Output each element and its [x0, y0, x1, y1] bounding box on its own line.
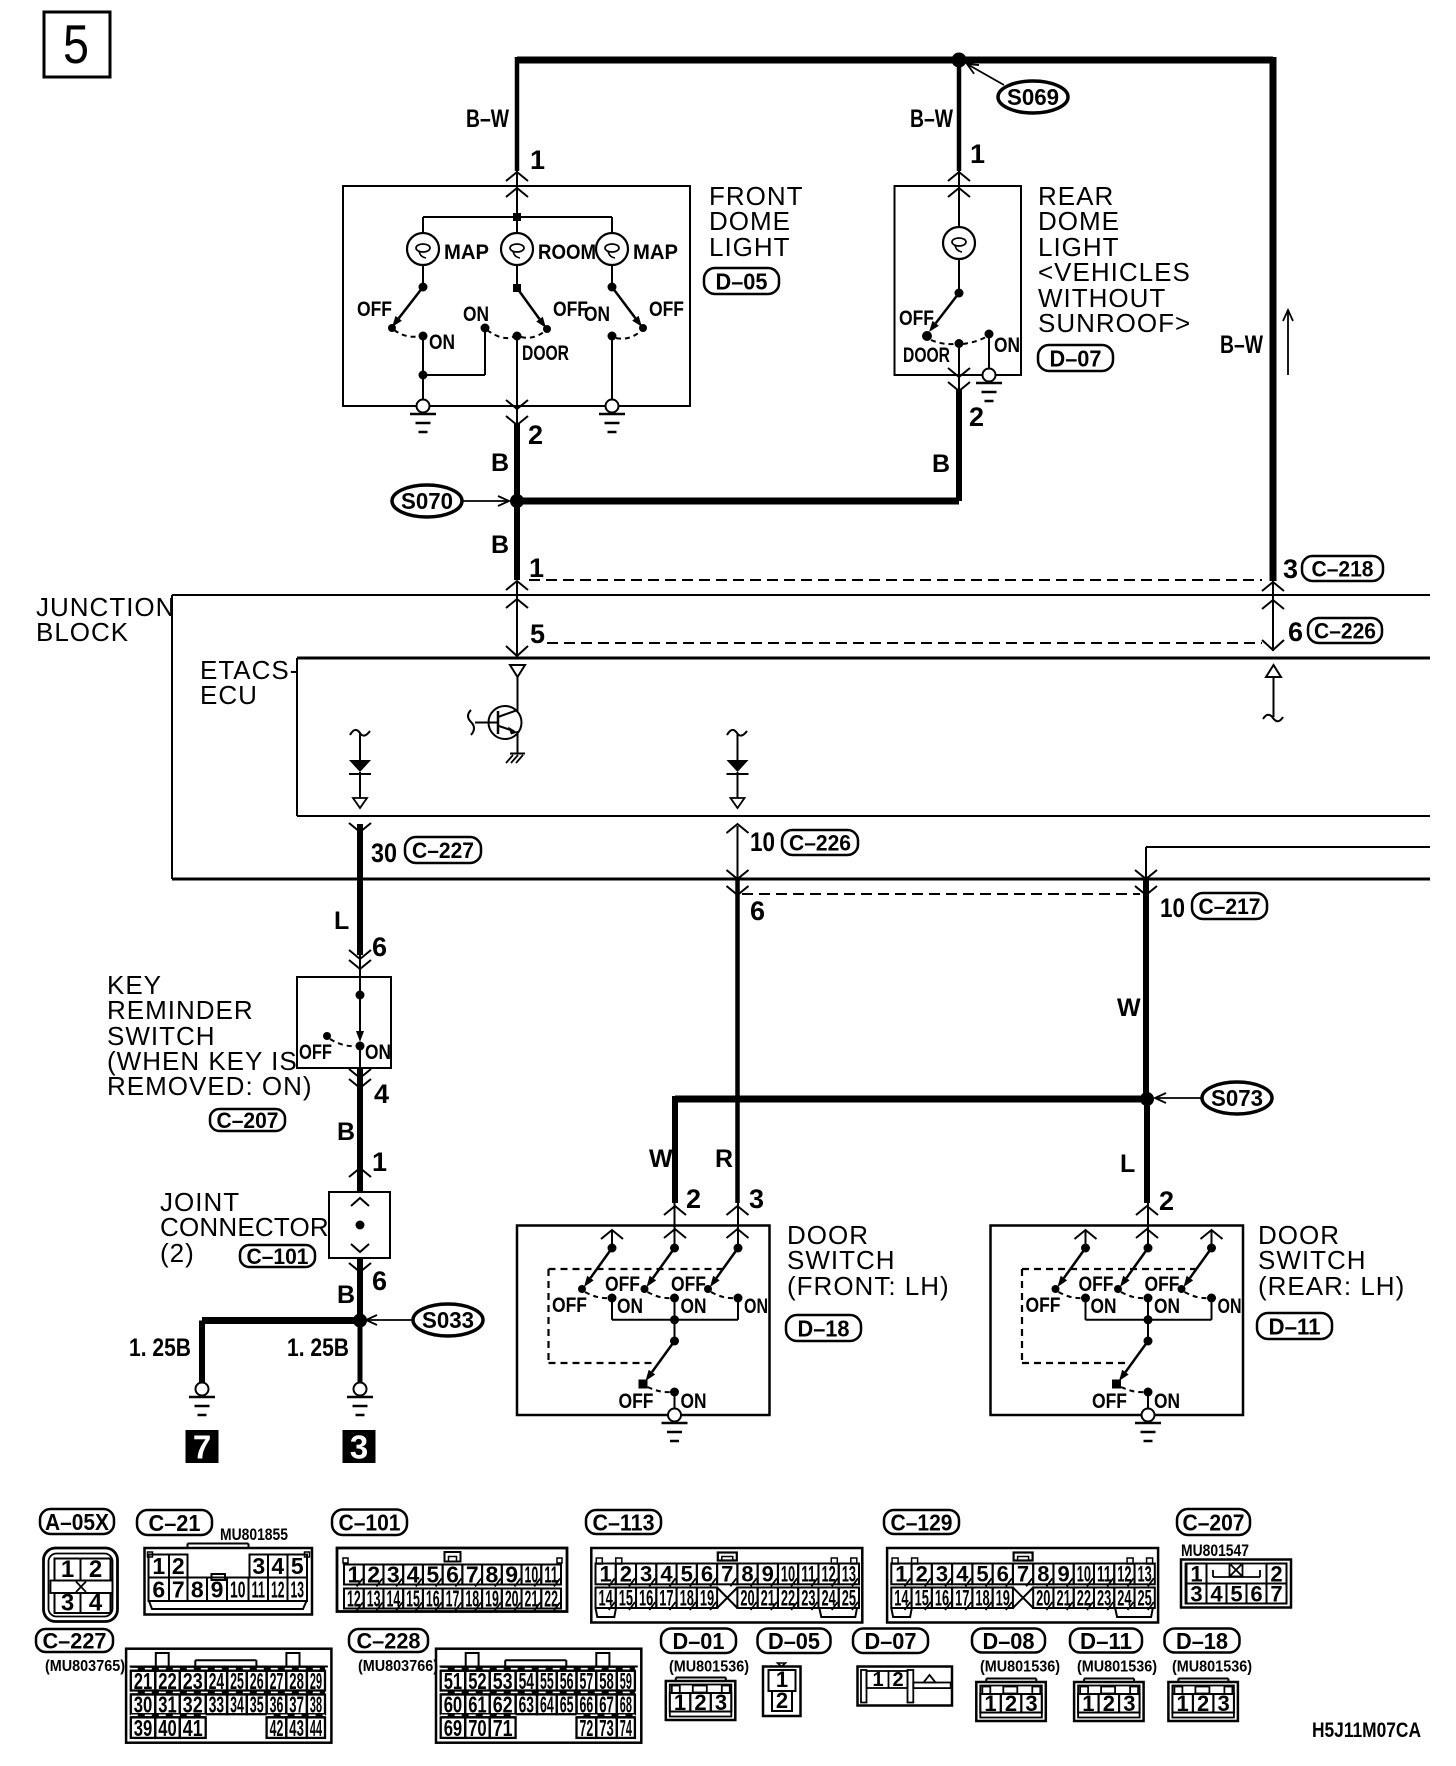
svg-text:4: 4: [271, 1553, 284, 1579]
wire: joint connector to S033: [357, 1258, 363, 1320]
pin 10 label C-226: [750, 827, 775, 857]
text KEY REMINDER SWITCH (WHEN KEY IS REMOVED: ON): [107, 970, 313, 1101]
svg-text:C–227: C–227: [43, 1628, 107, 1653]
svg-text:B: B: [491, 449, 509, 477]
front door switch: ground (door switch): [662, 1409, 688, 1442]
svg-text:H5J11M07CA: H5J11M07CA: [1312, 1719, 1421, 1742]
connector drawing C-129: [887, 1548, 1158, 1623]
key reminder switch top dot: [356, 991, 365, 1000]
svg-text:71: 71: [493, 1715, 513, 1741]
front door switch: lower terminal square OFF: [639, 1380, 648, 1389]
svg-text:52: 52: [468, 1668, 487, 1694]
rear door switch: label ON col C: [1218, 1295, 1242, 1318]
svg-text:REMOVED: ON): REMOVED: ON): [107, 1071, 313, 1101]
svg-text:D–11: D–11: [1269, 1313, 1321, 1339]
svg-text:OFF: OFF: [1092, 1390, 1127, 1413]
svg-text:10: 10: [230, 1576, 246, 1602]
svg-text:2: 2: [1159, 1186, 1174, 1216]
connector chevron joint connector entry: [349, 1168, 371, 1177]
rear door switch: dashed linkage box: [1022, 1269, 1198, 1363]
dashed throw arc (right MAP): [616, 331, 641, 339]
label D-05: [704, 268, 779, 294]
svg-text:B–W: B–W: [466, 105, 509, 133]
connector chevrons jb C-217 pin10 exit: [1135, 870, 1157, 895]
svg-text:SUNROOF>: SUNROOF>: [1038, 308, 1191, 338]
pin 6 label C-226: [1288, 617, 1303, 647]
label OFF (right MAP): [649, 298, 684, 321]
svg-text:30: 30: [371, 838, 397, 868]
svg-text:S070: S070: [401, 488, 453, 514]
front door switch: wire col B into box: [674, 1202, 676, 1248]
rear door switch: switch blade at x=1211.5: [1184, 1248, 1212, 1287]
pin 5 label (ETACS): [530, 619, 545, 649]
front door switch: switch pivot at x=612: [608, 1244, 617, 1253]
part number (MU801536) D-11: [1077, 1659, 1157, 1676]
part number MU801547: [1181, 1541, 1249, 1560]
svg-text:1: 1: [61, 1556, 74, 1583]
svg-text:ON: ON: [429, 331, 455, 354]
terminal dot OFF (rear dome): [922, 331, 932, 341]
svg-text:11: 11: [252, 1576, 266, 1602]
svg-text:1: 1: [674, 1690, 686, 1715]
svg-text:B: B: [932, 450, 950, 478]
connector label A-05X: [40, 1509, 114, 1535]
transistor Q1 (interior lamp driver): [468, 706, 522, 739]
svg-text:B–W: B–W: [910, 105, 953, 133]
svg-text:(MU801536): (MU801536): [980, 1659, 1060, 1676]
label B (front pin2): [491, 449, 509, 477]
wire: W wire inside notch: [1145, 847, 1147, 879]
label DOOR (ROOM): [522, 342, 569, 365]
label ON (left MAP): [429, 331, 455, 354]
dashed net pin6 to C-217: [742, 893, 1140, 895]
svg-text:(MU803765): (MU803765): [45, 1658, 125, 1675]
switch blade (rear dome, to OFF): [929, 293, 959, 332]
label OFF (ROOM): [553, 298, 588, 321]
connector chevrons jb pin1 entry: [506, 581, 528, 608]
wire: left ground drop: [199, 1321, 205, 1383]
wire: B-W feed to rear dome light pin 1: [957, 57, 962, 171]
svg-text:B: B: [337, 1118, 355, 1146]
svg-text:8: 8: [191, 1576, 204, 1602]
label B-W (rear feed): [910, 105, 953, 133]
wire: B-W branch down right side: [1270, 57, 1277, 581]
svg-text:72: 72: [580, 1715, 594, 1741]
svg-text:7: 7: [721, 1562, 733, 1587]
svg-text:29: 29: [310, 1668, 322, 1694]
svg-text:8: 8: [741, 1562, 753, 1587]
connector double chevron C-207 pin6: [349, 950, 371, 969]
svg-text:OFF: OFF: [357, 298, 392, 321]
svg-text:C–226: C–226: [789, 830, 851, 855]
part number (MU801536) D-01: [669, 1659, 749, 1676]
svg-text:C–227: C–227: [412, 838, 474, 863]
rear door switch: lower switch pivot: [1144, 1337, 1153, 1346]
svg-text:1: 1: [600, 1562, 612, 1587]
pin 3 label (front door): [749, 1184, 764, 1214]
svg-text:ON: ON: [1218, 1295, 1242, 1318]
rear door switch: terminal dot OFF at x=1181.5: [1178, 1285, 1186, 1293]
connector chevrons right B-W at jb: [1262, 582, 1284, 609]
wire: right MAP bulb stem: [611, 217, 613, 234]
pin 4 label: [374, 1079, 389, 1109]
svg-text:ON: ON: [744, 1295, 768, 1318]
connector label C-207: [1177, 1509, 1250, 1535]
svg-text:58: 58: [599, 1668, 614, 1694]
rear door switch: terminal dot ON lower: [1144, 1388, 1153, 1397]
ETACS input triangle (from pin5): [510, 665, 525, 677]
lamp: MAP bulb (right): [596, 233, 628, 265]
svg-text:5: 5: [63, 13, 89, 75]
svg-text:51: 51: [444, 1668, 463, 1694]
ground (rear dome): [976, 369, 1002, 402]
wire: rear bulb to switch: [958, 259, 960, 293]
switch blade (ROOM, to OFF): [517, 288, 546, 328]
connector label D-08: [972, 1628, 1045, 1654]
dashed throw arc (key reminder): [330, 1039, 356, 1046]
label C-227 (pin30): [405, 837, 481, 863]
connector label C-101: [332, 1510, 407, 1536]
lamp: rear dome bulb: [943, 227, 975, 259]
text DOOR SWITCH (FRONT: LH): [787, 1220, 950, 1301]
rear door switch: lower terminal square OFF: [1112, 1380, 1121, 1389]
wire: front door W drop: [672, 1096, 678, 1203]
diode D1 (to pin 30): [349, 760, 371, 798]
ground ref box 3: [343, 1429, 376, 1466]
ground (transistor, chassis): [506, 754, 525, 764]
splice S033 junction dot: [353, 1314, 367, 1328]
splice S069 label: [967, 64, 1068, 113]
svg-text:5: 5: [681, 1562, 693, 1587]
front door switch: wire lower ON to ground: [674, 1392, 676, 1415]
dashed throw arc (rear dome): [931, 337, 986, 344]
svg-text:3: 3: [1123, 1691, 1135, 1716]
svg-text:C–217: C–217: [1199, 894, 1261, 919]
svg-text:2: 2: [776, 1688, 788, 1713]
svg-text:2: 2: [892, 1669, 903, 1691]
svg-text:44: 44: [310, 1715, 322, 1741]
svg-text:10: 10: [1160, 893, 1185, 923]
svg-text:3: 3: [1283, 554, 1298, 584]
svg-text:35: 35: [250, 1692, 264, 1718]
svg-text:4: 4: [374, 1079, 389, 1109]
label D-11 (rear door): [1257, 1313, 1332, 1339]
svg-text:BLOCK: BLOCK: [36, 617, 129, 647]
rear door switch: label ON col B: [1154, 1295, 1180, 1318]
connector label C-21: [137, 1510, 212, 1536]
splice S073 junction dot: [1140, 1092, 1154, 1106]
svg-text:70: 70: [468, 1715, 487, 1741]
rear door switch: switch blade at x=1148: [1120, 1248, 1148, 1287]
svg-text:5: 5: [291, 1553, 304, 1579]
dashed net pin1 to C-218: [529, 579, 1262, 581]
svg-text:ON: ON: [681, 1390, 707, 1413]
svg-text:ON: ON: [681, 1295, 707, 1318]
svg-text:2: 2: [969, 402, 984, 432]
svg-text:C–101: C–101: [247, 1244, 309, 1269]
label B-W (right branch): [1220, 331, 1263, 359]
svg-text:D–07: D–07: [865, 1628, 917, 1654]
connector drawing C-207: [1181, 1560, 1291, 1608]
rear door switch: door switch box: [991, 1226, 1244, 1416]
rear dome light box D-07: [895, 186, 1022, 375]
svg-text:OFF: OFF: [619, 1390, 654, 1413]
front door switch: terminal dot OFF at x=708: [704, 1285, 712, 1293]
connector chevrons at rear dome pin 2: [948, 368, 970, 391]
label ON (ROOM): [463, 303, 489, 326]
ground (front dome right): [599, 400, 625, 433]
svg-text:24: 24: [209, 1668, 225, 1694]
wire: front dome pin2 B down: [516, 406, 518, 580]
svg-text:OFF: OFF: [553, 298, 588, 321]
svg-text:OFF: OFF: [649, 298, 684, 321]
svg-text:1: 1: [529, 553, 544, 583]
rear door switch: switch blade at x=1085.5: [1058, 1248, 1086, 1287]
svg-text:MAP: MAP: [444, 241, 489, 264]
splice S069 junction dot: [952, 53, 967, 68]
rear door switch: ground (door switch): [1135, 1409, 1161, 1442]
switch blade (right MAP, to OFF): [612, 287, 642, 327]
front door switch: label ON col B: [681, 1295, 707, 1318]
label DOOR (rear dome): [903, 344, 950, 367]
front door switch: switch blade at x=738: [710, 1248, 738, 1287]
svg-text:6: 6: [701, 1562, 713, 1587]
rear door switch: terminal dot OFF at x=1118: [1114, 1285, 1122, 1293]
front door switch: wire col C into box: [737, 1202, 739, 1248]
switch: rear dome switch pivot: [955, 289, 964, 298]
terminal dot ON (rear dome): [985, 330, 994, 339]
svg-text:53: 53: [493, 1668, 513, 1694]
svg-text:OFF: OFF: [1079, 1273, 1114, 1296]
svg-text:ON: ON: [994, 334, 1020, 357]
connector chevrons at front dome pin 2: [506, 400, 528, 425]
wire: ROOM ON terminal to left run: [423, 328, 485, 375]
diode D2 squiggle head: [727, 730, 747, 760]
svg-text:34: 34: [230, 1692, 244, 1718]
terminal dot OFF (ROOM): [543, 325, 551, 333]
junction dot on lamp bus: [513, 213, 521, 221]
connector label D-01: [661, 1628, 736, 1654]
svg-text:1: 1: [1177, 1691, 1189, 1716]
svg-text:B: B: [491, 531, 509, 559]
svg-text:3: 3: [1218, 1691, 1230, 1716]
svg-text:25: 25: [230, 1668, 244, 1694]
svg-text:2: 2: [686, 1184, 701, 1214]
pin 6 label (door front): [750, 896, 765, 926]
text DOOR SWITCH (REAR: LH): [1258, 1220, 1405, 1301]
svg-text:6: 6: [372, 1266, 387, 1296]
svg-text:41: 41: [183, 1715, 203, 1741]
drawing number H5J11M07CA: [1312, 1719, 1421, 1742]
svg-text:W: W: [649, 1145, 673, 1173]
arrow up ETACS pin10: [727, 824, 749, 879]
connector label C-228: [349, 1628, 428, 1653]
rear door switch: dashed arc at x=1148: [1121, 1292, 1144, 1298]
rear door switch: terminal dot ON at x=1148: [1144, 1294, 1153, 1303]
rear door switch: terminal dot ON at x=1085.5: [1081, 1294, 1090, 1303]
connector label C-227: [36, 1628, 113, 1653]
svg-text:OFF: OFF: [605, 1273, 640, 1296]
front door switch: label OFF lower: [619, 1390, 654, 1413]
pin 3 label C-218: [1283, 554, 1298, 584]
svg-text:2: 2: [620, 1562, 632, 1587]
rear door switch: terminal dot OFF at x=1055.5: [1052, 1285, 1060, 1293]
svg-text:D–01: D–01: [673, 1628, 725, 1654]
terminal dot ON (right MAP): [608, 332, 617, 341]
connector label D-18: [1165, 1628, 1240, 1654]
svg-text:7: 7: [1017, 1562, 1029, 1587]
arrow into ETACS pin5: [506, 630, 528, 656]
connector drawing C-101: [337, 1548, 567, 1612]
pin 30 label: [371, 838, 397, 868]
label W (C-217 wire): [1117, 994, 1141, 1022]
svg-text:13: 13: [291, 1576, 305, 1602]
front door switch: dashed arc lower: [648, 1387, 671, 1392]
switch: front dome ROOM switch pivot (square): [513, 284, 521, 292]
diode D2 (to pin 10): [727, 760, 749, 798]
wire: rear ON terminal to ground: [988, 334, 990, 375]
arrow up beside right B-W wire: [1283, 310, 1293, 375]
ground ref box 7: [186, 1429, 219, 1466]
pin 1 label (junction block): [529, 553, 544, 583]
pin 6 label (C-207 entry): [372, 932, 387, 962]
label C-226 (pin10): [782, 830, 858, 855]
ground (front dome left): [410, 400, 436, 433]
front door switch: label OFF col C: [671, 1273, 706, 1296]
rear door switch: dashed arc lower: [1121, 1387, 1144, 1392]
front door switch: switch pivot at x=738: [734, 1244, 743, 1253]
svg-text:56: 56: [560, 1668, 574, 1694]
svg-text:6: 6: [152, 1576, 165, 1602]
connector drawing C-227: [126, 1649, 331, 1743]
junction dot at left ground run: [419, 371, 428, 380]
wire: front dome internal feed: [516, 171, 518, 234]
connector label D-05: [758, 1628, 831, 1654]
svg-text:OFF: OFF: [671, 1273, 706, 1296]
terminal dot ON (left MAP): [419, 332, 428, 341]
label MAP (right): [633, 241, 678, 264]
svg-text:R: R: [715, 1145, 733, 1173]
svg-text:D–11: D–11: [1080, 1628, 1132, 1654]
pin 2 label (front dome): [528, 420, 543, 450]
label C-101 (joint connector): [240, 1244, 315, 1269]
lamp: ROOM bulb stem: [516, 217, 518, 234]
svg-text:OFF: OFF: [552, 1294, 587, 1317]
svg-text:1: 1: [872, 1669, 883, 1691]
connector label C-129: [884, 1509, 959, 1535]
pin 6 label (joint connector out): [372, 1266, 387, 1296]
svg-text:4: 4: [89, 1590, 103, 1617]
front door switch: terminal dot ON lower: [670, 1388, 679, 1397]
label D-07: [1038, 345, 1113, 371]
wire: into key reminder switch: [359, 955, 361, 995]
svg-text:2: 2: [1103, 1691, 1115, 1716]
front door switch: chevron col A: [601, 1230, 623, 1248]
front door switch: dashed arc at x=612: [585, 1292, 608, 1298]
label C-226: [1308, 618, 1382, 643]
svg-text:L: L: [1120, 1150, 1135, 1178]
svg-text:2: 2: [694, 1690, 706, 1715]
terminal dot DOOR (rear dome): [955, 339, 964, 348]
wire: rear door L drop: [1144, 1099, 1150, 1203]
pin 1 label (front dome): [530, 145, 545, 175]
svg-text:ON: ON: [1154, 1390, 1180, 1413]
svg-text:57: 57: [580, 1668, 594, 1694]
svg-text:9: 9: [1057, 1562, 1069, 1587]
junction block outline: [172, 595, 1430, 879]
front door switch: dashed arc at x=738: [711, 1292, 734, 1298]
ETACS-ECU box: [297, 658, 1430, 816]
joint connector internal chevrons and dot: [351, 1198, 369, 1252]
part number (MU803765): [45, 1658, 125, 1675]
svg-text:MAP: MAP: [633, 241, 678, 264]
connector chevrons at rear dome pin 1: [948, 172, 970, 197]
svg-text:1: 1: [372, 1147, 387, 1177]
svg-text:6: 6: [1250, 1581, 1262, 1606]
connector drawing D-07: [858, 1667, 953, 1706]
front door switch: switch pivot at x=674.5: [670, 1244, 679, 1253]
pin 2 label (rear dome): [969, 402, 984, 432]
svg-text:W: W: [1117, 994, 1141, 1022]
splice S033 label: [366, 1304, 483, 1336]
connector chevrons jb pin6 exit: [727, 870, 749, 895]
svg-text:B–W: B–W: [1220, 331, 1263, 359]
svg-text:54: 54: [519, 1668, 535, 1694]
front door switch: dashed linkage box: [549, 1269, 725, 1363]
label D-18 (front door): [786, 1315, 861, 1341]
svg-text:LIGHT: LIGHT: [709, 232, 791, 262]
svg-text:MU801855: MU801855: [220, 1525, 288, 1544]
svg-text:(MU801536): (MU801536): [669, 1659, 749, 1676]
part number MU801855: [220, 1525, 288, 1544]
terminal dot OFF (right MAP): [639, 324, 647, 332]
wire: B-W feed to front dome light pin 1: [515, 57, 520, 171]
svg-text:42: 42: [270, 1715, 284, 1741]
part number (MU803766): [358, 1658, 438, 1675]
terminal dot OFF (key reminder): [323, 1032, 331, 1040]
label W (front door wire): [649, 1145, 673, 1173]
svg-text:1: 1: [1082, 1691, 1094, 1716]
connector label D-11: [1070, 1628, 1142, 1654]
terminal dot ON (ROOM): [481, 324, 490, 333]
connector drawing D-01: [666, 1678, 736, 1721]
wire: left MAP bulb stem: [422, 217, 424, 234]
svg-text:7: 7: [1270, 1581, 1282, 1606]
pin 10 label C-217: [1160, 893, 1185, 923]
rear door switch: wire col B into box: [1147, 1202, 1149, 1248]
lamp: MAP bulb (left): [407, 233, 439, 265]
rear door switch: wire lower ON to ground: [1147, 1392, 1149, 1415]
svg-text:40: 40: [158, 1715, 177, 1741]
svg-text:3: 3: [1190, 1581, 1202, 1606]
label OFF (rear dome): [899, 307, 934, 330]
rear door switch: terminal dot ON at x=1211.5: [1207, 1294, 1216, 1303]
switch: front dome left MAP switch pivot: [419, 283, 428, 292]
rear door switch: label ON lower: [1154, 1390, 1180, 1413]
svg-text:33: 33: [209, 1692, 224, 1718]
svg-text:39: 39: [134, 1715, 153, 1741]
connector drawing C-228: [436, 1649, 641, 1743]
switch blade (key reminder, vertical to ON): [356, 995, 364, 1042]
svg-text:1. 25B: 1. 25B: [287, 1334, 349, 1362]
wire: right bulb to switch: [611, 265, 613, 287]
svg-text:10: 10: [750, 827, 775, 857]
wire: jb pin1 to pin5: [516, 581, 518, 655]
rear door switch: label OFF col B: [1079, 1273, 1114, 1296]
wire: right branch pin3 to pin6: [1272, 581, 1274, 651]
svg-text:OFF: OFF: [1145, 1273, 1180, 1296]
connector drawing D-08: [976, 1679, 1046, 1722]
